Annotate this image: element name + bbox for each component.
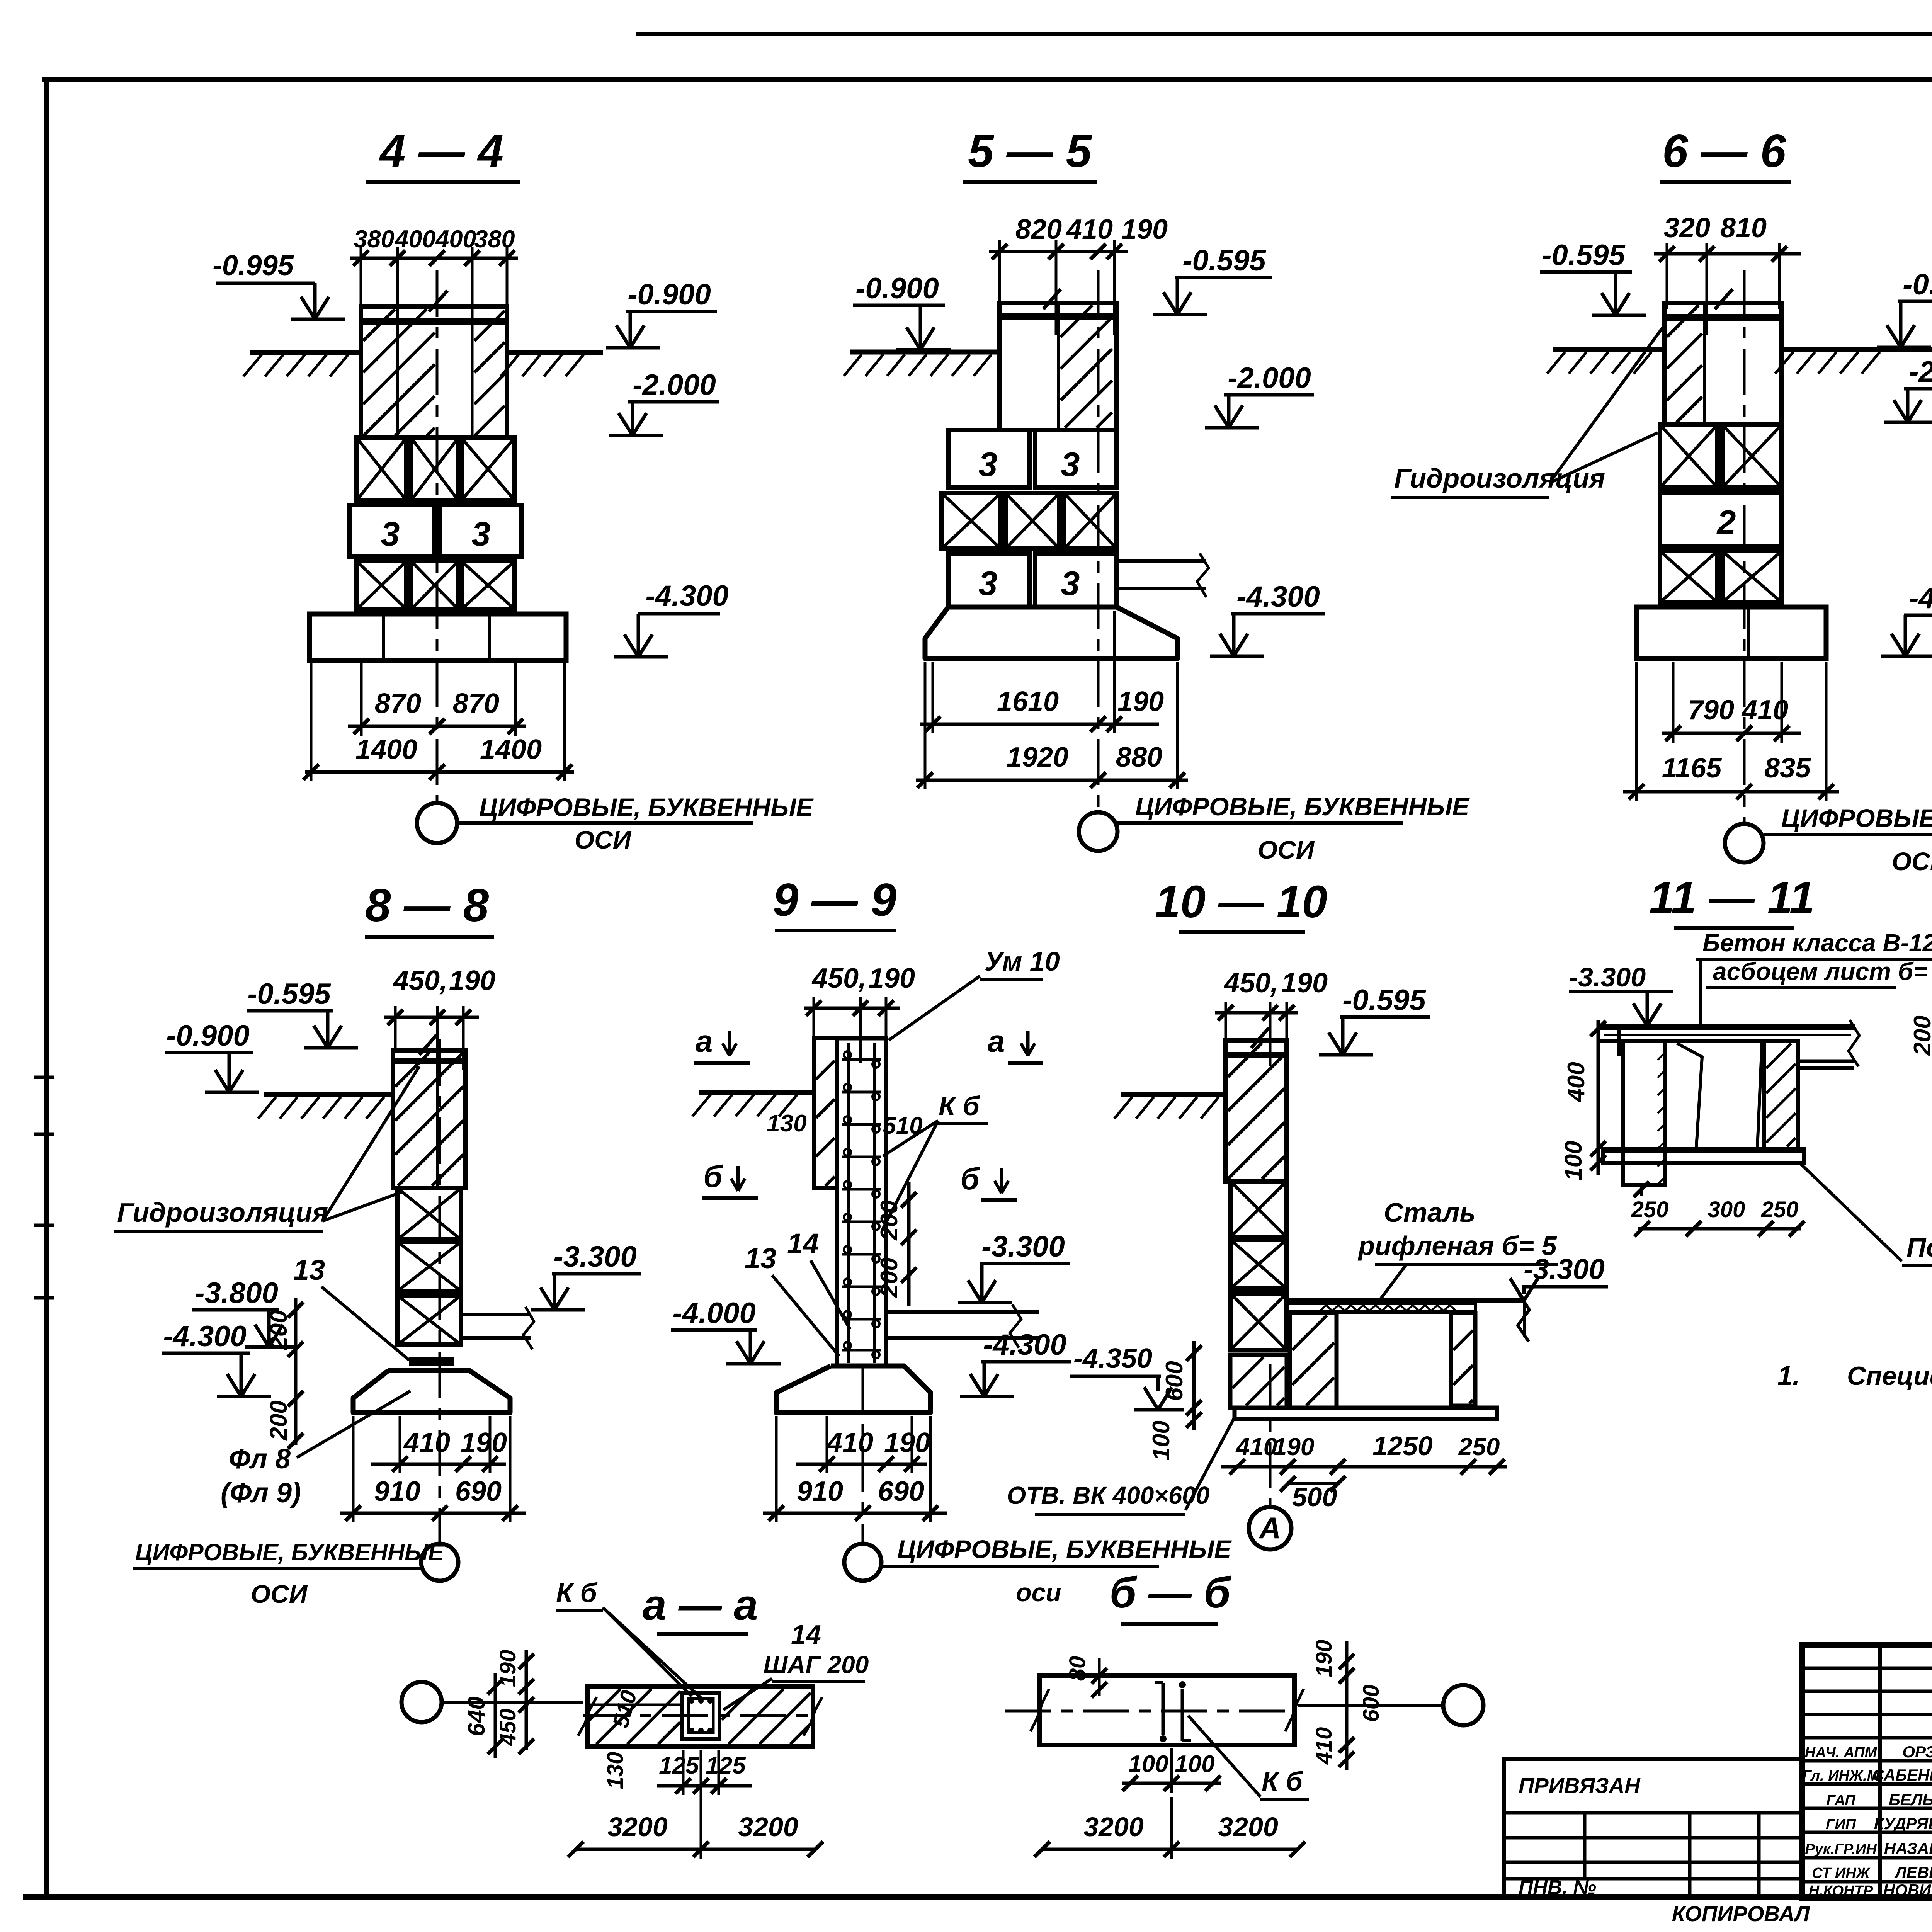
title block frame bbox=[1802, 1645, 1932, 1898]
svg-text:ОСИ-: ОСИ- bbox=[1892, 847, 1932, 876]
svg-text:ОСИ: ОСИ bbox=[1258, 835, 1315, 864]
dim 250 300 250 (11-11) bbox=[1638, 1227, 1801, 1231]
svg-text:410: 410 bbox=[1311, 1727, 1337, 1765]
svg-text:ЦИФРОВЫЕ, БУКВЕННЫЕ: ЦИФРОВЫЕ, БУКВЕННЫЕ bbox=[1781, 804, 1932, 832]
ground line left 5-5 bbox=[850, 350, 1000, 355]
svg-text:835: 835 bbox=[1764, 753, 1811, 784]
axis center line 9-9 bbox=[862, 1368, 864, 1544]
duct pipe right (8-8) bbox=[461, 1313, 531, 1316]
axis circle 8-8 bbox=[421, 1544, 458, 1581]
block row X upper bbox=[357, 438, 406, 500]
svg-text:13: 13 bbox=[293, 1254, 325, 1286]
svg-text:А: А bbox=[1259, 1511, 1281, 1545]
svg-text:3200: 3200 bbox=[738, 1812, 798, 1842]
svg-text:3: 3 bbox=[979, 445, 998, 483]
floor slab (10-10) bbox=[1287, 1298, 1524, 1303]
svg-text:КОПИРОВАЛ: КОПИРОВАЛ bbox=[1672, 1901, 1810, 1926]
svg-text:НАЧ. АПМ: НАЧ. АПМ bbox=[1805, 1745, 1878, 1761]
block row 3-3 lower (5-5) bbox=[948, 553, 1030, 607]
svg-text:2: 2 bbox=[1716, 503, 1736, 541]
svg-text:190: 190 bbox=[1311, 1640, 1337, 1677]
svg-text:190: 190 bbox=[1273, 1433, 1315, 1461]
svg-text:200: 200 bbox=[265, 1310, 292, 1350]
rebar cage (a-a) bbox=[682, 1693, 719, 1739]
wall section 4-4 bbox=[361, 307, 507, 438]
svg-text:ЦИФРОВЫЕ, БУКВЕННЫЕ: ЦИФРОВЫЕ, БУКВЕННЫЕ bbox=[897, 1535, 1232, 1563]
wall band (a-a) bbox=[587, 1687, 813, 1747]
svg-text:400: 400 bbox=[394, 226, 435, 253]
title block left annex privyazan bbox=[1504, 1759, 1802, 1898]
svg-text:130: 130 bbox=[603, 1752, 628, 1789]
svg-text:690: 690 bbox=[455, 1476, 502, 1507]
svg-text:б: б bbox=[960, 1162, 980, 1196]
svg-text:1400: 1400 bbox=[355, 734, 417, 765]
svg-text:-0.900: -0.900 bbox=[628, 278, 711, 311]
ground line left 10-10 bbox=[1121, 1092, 1226, 1097]
svg-text:600: 600 bbox=[1161, 1361, 1188, 1401]
bottom plate (10-10) bbox=[1235, 1408, 1497, 1419]
checkered plate hatch bbox=[1320, 1305, 1456, 1311]
svg-text:11 — 11: 11 — 11 bbox=[1649, 872, 1815, 923]
wall band (b-b) bbox=[1040, 1676, 1294, 1745]
svg-text:К б: К б bbox=[939, 1091, 980, 1121]
registration ticks left margin bbox=[34, 1076, 54, 1079]
svg-text:-4.300: -4.300 bbox=[1909, 582, 1932, 615]
svg-text:ЦИФРОВЫЕ, БУКВЕННЫЕ: ЦИФРОВЫЕ, БУКВЕННЫЕ bbox=[479, 793, 814, 821]
block row X upper (6-6) bbox=[1660, 425, 1718, 488]
axis center line (a-a) bbox=[442, 1701, 583, 1704]
block column X (8-8) bbox=[398, 1188, 461, 1240]
svg-text:14: 14 bbox=[787, 1228, 819, 1260]
svg-text:-0.900: -0.900 bbox=[1903, 268, 1932, 301]
ground line left 8-8 bbox=[264, 1092, 393, 1097]
wall section 6-6 bbox=[1665, 303, 1782, 425]
svg-text:14: 14 bbox=[791, 1619, 821, 1650]
svg-text:125: 125 bbox=[706, 1752, 746, 1779]
svg-text:190: 190 bbox=[869, 963, 915, 994]
section a-a end ticks bbox=[568, 1842, 583, 1857]
svg-text:САБЕННИКОВ: САБЕННИКОВ bbox=[1872, 1766, 1932, 1784]
svg-text:-3.300: -3.300 bbox=[981, 1230, 1065, 1263]
break slash 8-8 bbox=[419, 1035, 437, 1055]
break slash 10-10 bbox=[1251, 1028, 1269, 1048]
svg-text:-4.300: -4.300 bbox=[163, 1320, 247, 1353]
svg-text:3: 3 bbox=[381, 515, 400, 553]
bottom plate podbetonka (11-11) bbox=[1603, 1149, 1804, 1163]
svg-text:910: 910 bbox=[374, 1476, 420, 1507]
svg-text:-0.595: -0.595 bbox=[1342, 984, 1426, 1017]
svg-text:450,: 450, bbox=[1223, 968, 1278, 998]
basement wall right (10-10) bbox=[1451, 1313, 1475, 1406]
svg-text:880: 880 bbox=[1116, 742, 1162, 773]
svg-text:3: 3 bbox=[472, 515, 491, 553]
svg-text:600: 600 bbox=[1359, 1685, 1384, 1722]
svg-text:оси: оси bbox=[1016, 1578, 1061, 1607]
svg-text:410: 410 bbox=[403, 1427, 450, 1458]
svg-text:410: 410 bbox=[1066, 214, 1113, 245]
svg-text:-2.000: -2.000 bbox=[1228, 362, 1311, 395]
svg-text:13: 13 bbox=[745, 1242, 776, 1274]
svg-text:К б: К б bbox=[556, 1578, 597, 1608]
svg-text:9 — 9: 9 — 9 bbox=[773, 874, 896, 926]
svg-text:ШАГ 200: ШАГ 200 bbox=[764, 1651, 869, 1679]
slab break right (11-11) bbox=[1796, 1060, 1854, 1063]
rebar anchors (b-b) bbox=[1162, 1683, 1165, 1735]
block row 3-3 upper (5-5) bbox=[948, 430, 1030, 488]
svg-text:а — а: а — а bbox=[643, 1581, 758, 1629]
svg-text:ПРИВЯЗАН: ПРИВЯЗАН bbox=[1519, 1773, 1641, 1798]
svg-text:3: 3 bbox=[1061, 445, 1080, 483]
svg-text:125: 125 bbox=[659, 1752, 699, 1779]
svg-text:450: 450 bbox=[495, 1709, 520, 1747]
svg-text:ЛЕВИНА: ЛЕВИНА bbox=[1894, 1863, 1932, 1881]
basement wall left (10-10) bbox=[1290, 1313, 1337, 1408]
footing trapezoid 9-9 bbox=[776, 1366, 930, 1413]
svg-text:а: а bbox=[988, 1024, 1005, 1058]
svg-text:-3.800: -3.800 bbox=[195, 1277, 278, 1310]
svg-text:НАЗАРОВА: НАЗАРОВА bbox=[1884, 1839, 1932, 1857]
axis center line 10-10 bbox=[1269, 1364, 1272, 1507]
axis circle 9-9 bbox=[844, 1544, 881, 1581]
svg-text:190: 190 bbox=[495, 1650, 520, 1687]
wall base block (10-10) bbox=[1230, 1355, 1287, 1408]
svg-text:К б: К б bbox=[1262, 1766, 1303, 1796]
svg-text:1400: 1400 bbox=[480, 734, 542, 765]
svg-text:БЕЛЬМАН: БЕЛЬМАН bbox=[1889, 1791, 1932, 1809]
svg-text:190: 190 bbox=[1121, 214, 1168, 245]
svg-text:-0.900: -0.900 bbox=[855, 272, 939, 305]
svg-text:410: 410 bbox=[826, 1427, 873, 1458]
svg-text:910: 910 bbox=[797, 1476, 843, 1507]
waterproofing layer 10-10 bbox=[1226, 1052, 1287, 1058]
svg-text:ЦИФРОВЫЕ, БУКВЕННЫЕ: ЦИФРОВЫЕ, БУКВЕННЫЕ bbox=[135, 1539, 445, 1565]
svg-text:-2.000: -2.000 bbox=[1909, 355, 1932, 388]
svg-text:200: 200 bbox=[876, 1200, 903, 1240]
wall section 10-10 bbox=[1226, 1041, 1287, 1181]
break slash 5-5 bbox=[1043, 289, 1061, 309]
svg-text:190: 190 bbox=[449, 965, 495, 996]
footing slab 6-6 bbox=[1636, 607, 1826, 658]
svg-text:640: 640 bbox=[463, 1696, 490, 1736]
svg-text:130: 130 bbox=[767, 1110, 806, 1137]
svg-text:190: 190 bbox=[884, 1427, 930, 1458]
axis circle 4-4 bbox=[417, 803, 457, 843]
svg-text:80: 80 bbox=[1065, 1656, 1090, 1681]
svg-text:ГИП: ГИП bbox=[1826, 1816, 1856, 1833]
wall outer leaf (9-9) bbox=[814, 1038, 837, 1188]
axis center line 5-5 bbox=[1097, 270, 1100, 811]
svg-text:Гл. ИНЖ.М: Гл. ИНЖ.М bbox=[1803, 1768, 1880, 1784]
svg-text:Гидроизоляция: Гидроизоляция bbox=[1394, 463, 1605, 493]
svg-text:250: 250 bbox=[1458, 1433, 1500, 1461]
svg-text:(Фл 9): (Фл 9) bbox=[221, 1478, 301, 1509]
ground line left 6-6 bbox=[1553, 347, 1665, 352]
svg-text:Подбетонка: Подбетонка bbox=[1906, 1232, 1932, 1262]
svg-text:1165: 1165 bbox=[1662, 753, 1722, 784]
wall section 8-8 bbox=[393, 1050, 466, 1188]
svg-text:200: 200 bbox=[265, 1400, 292, 1440]
block row X lower (6-6) bbox=[1660, 551, 1718, 602]
wall column (9-9) bbox=[837, 1038, 886, 1366]
ground line left bbox=[250, 350, 361, 355]
duct pipe right (5-5) bbox=[1117, 559, 1206, 563]
svg-text:ОТВ. ВК 400×600: ОТВ. ВК 400×600 bbox=[1007, 1481, 1210, 1509]
waterproofing layer 5-5 bbox=[1000, 313, 1117, 320]
svg-text:190: 190 bbox=[1281, 968, 1328, 998]
svg-text:-4.300: -4.300 bbox=[1236, 580, 1320, 613]
svg-text:500: 500 bbox=[1292, 1482, 1337, 1512]
block column X (10-10) bbox=[1230, 1181, 1287, 1237]
break slash wall top bbox=[429, 291, 447, 311]
svg-text:б: б bbox=[703, 1159, 723, 1194]
svg-text:-4.300: -4.300 bbox=[983, 1328, 1066, 1361]
ground line right bbox=[507, 350, 603, 355]
svg-text:-3.300: -3.300 bbox=[553, 1240, 637, 1273]
svg-text:Гидроизоляция: Гидроизоляция bbox=[117, 1197, 328, 1228]
svg-text:-4.000: -4.000 bbox=[672, 1297, 756, 1330]
svg-text:810: 810 bbox=[1720, 213, 1767, 243]
axis circle A (10-10) bbox=[1249, 1507, 1291, 1549]
svg-text:3200: 3200 bbox=[1083, 1812, 1144, 1842]
svg-text:КУДРЯВЦЕВА: КУДРЯВЦЕВА bbox=[1874, 1815, 1932, 1833]
waterproofing layer bbox=[361, 318, 507, 325]
axis circle 5-5 bbox=[1079, 812, 1117, 851]
svg-text:ОСИ: ОСИ bbox=[251, 1580, 308, 1608]
vertical dim 400 100 (11-11) bbox=[1597, 1020, 1600, 1175]
reinforcement ladder (9-9) bbox=[847, 1043, 850, 1363]
svg-text:1610: 1610 bbox=[997, 686, 1059, 717]
svg-text:870: 870 bbox=[453, 688, 499, 719]
title block signature table bbox=[1802, 1667, 1932, 1670]
svg-text:НОВИКОВА: НОВИКОВА bbox=[1883, 1881, 1932, 1899]
ground line left 9-9 bbox=[699, 1090, 814, 1095]
axis circle 6-6 bbox=[1725, 824, 1764, 862]
svg-text:3: 3 bbox=[1061, 564, 1080, 602]
svg-text:3200: 3200 bbox=[607, 1812, 668, 1842]
svg-text:190: 190 bbox=[1117, 686, 1164, 717]
svg-text:-0.595: -0.595 bbox=[1182, 244, 1266, 277]
svg-text:Н.КОНТР: Н.КОНТР bbox=[1809, 1883, 1873, 1899]
svg-text:Фл 8: Фл 8 bbox=[229, 1444, 291, 1475]
svg-text:200: 200 bbox=[1909, 1015, 1932, 1056]
svg-text:Рук.ГР.ИН: Рук.ГР.ИН bbox=[1805, 1841, 1877, 1857]
block row 3-3 bbox=[350, 505, 434, 556]
svg-text:100: 100 bbox=[1175, 1751, 1214, 1777]
svg-text:а: а bbox=[696, 1024, 713, 1058]
page frame border bbox=[636, 32, 1932, 36]
channel left wall (11-11) bbox=[1623, 1041, 1665, 1185]
axis center line (b-b) bbox=[1298, 1704, 1443, 1707]
floor slab (11-11) bbox=[1600, 1024, 1855, 1030]
svg-text:100: 100 bbox=[1128, 1751, 1168, 1777]
svg-text:-3.300: -3.300 bbox=[1569, 962, 1646, 992]
axis center line 6-6 bbox=[1743, 270, 1746, 823]
axis center line 4-4 bbox=[436, 270, 439, 803]
svg-text:б — б: б — б bbox=[1110, 1568, 1232, 1617]
svg-text:450,: 450, bbox=[393, 965, 447, 996]
duct pipe right (9-9) bbox=[886, 1310, 1039, 1314]
break slash 6-6 bbox=[1715, 289, 1733, 309]
svg-text:ОСИ: ОСИ bbox=[575, 825, 632, 854]
svg-text:870: 870 bbox=[375, 688, 421, 719]
svg-text:-0.595: -0.595 bbox=[1542, 239, 1626, 272]
svg-text:300: 300 bbox=[1708, 1197, 1745, 1222]
svg-text:690: 690 bbox=[878, 1476, 924, 1507]
svg-text:100: 100 bbox=[1560, 1141, 1587, 1180]
vertical dim 200 200 (8-8) bbox=[294, 1298, 298, 1445]
waterproofing layer 8-8 bbox=[393, 1058, 466, 1064]
axis circle (b-b) bbox=[1443, 1685, 1483, 1725]
footing trapezoid 5-5 bbox=[925, 607, 1177, 658]
svg-text:100: 100 bbox=[1148, 1420, 1175, 1460]
svg-text:-0.595: -0.595 bbox=[247, 978, 331, 1010]
svg-text:-4.300: -4.300 bbox=[645, 580, 729, 612]
vertical dims 640 450 190 (a-a) bbox=[494, 1673, 497, 1758]
svg-text:5 — 5: 5 — 5 bbox=[968, 125, 1092, 177]
block row 2 (6-6) bbox=[1660, 492, 1782, 546]
bearing plate Fl (8-8) bbox=[409, 1357, 454, 1366]
svg-text:Бетон класса В-12,5-50мм: Бетон класса В-12,5-50мм bbox=[1702, 929, 1932, 957]
svg-text:400: 400 bbox=[1563, 1062, 1590, 1102]
svg-text:Ум 10: Ум 10 bbox=[985, 946, 1060, 976]
svg-text:ГАП: ГАП bbox=[1826, 1793, 1855, 1809]
svg-text:790: 790 bbox=[1688, 695, 1734, 726]
footing trapezoid 8-8 bbox=[353, 1371, 510, 1413]
svg-text:-2.000: -2.000 bbox=[633, 369, 716, 401]
vertical dims 190 600 410 (b-b) bbox=[1345, 1641, 1349, 1770]
slab left end step bbox=[1617, 1027, 1621, 1056]
block row X lower bbox=[357, 561, 406, 609]
waterproofing layer 6-6 bbox=[1665, 314, 1782, 321]
svg-text:400: 400 bbox=[435, 226, 476, 253]
svg-text:3: 3 bbox=[979, 564, 998, 602]
svg-text:8 — 8: 8 — 8 bbox=[365, 879, 489, 931]
svg-text:200: 200 bbox=[876, 1257, 903, 1298]
axis circle (a-a) bbox=[401, 1682, 442, 1722]
svg-text:190: 190 bbox=[461, 1427, 507, 1458]
svg-text:ОРЗУЛ: ОРЗУЛ bbox=[1902, 1743, 1932, 1761]
svg-text:СТ ИНЖ: СТ ИНЖ bbox=[1812, 1865, 1871, 1881]
channel right wall (11-11) bbox=[1764, 1041, 1798, 1149]
svg-text:4 — 4: 4 — 4 bbox=[379, 125, 503, 177]
svg-text:1.: 1. bbox=[1777, 1361, 1800, 1391]
svg-text:1250: 1250 bbox=[1372, 1431, 1433, 1461]
svg-text:250: 250 bbox=[1631, 1197, 1669, 1222]
svg-text:-4.350: -4.350 bbox=[1073, 1343, 1152, 1374]
svg-text:250: 250 bbox=[1761, 1197, 1799, 1222]
vertical dim 600 100 (10-10) bbox=[1192, 1341, 1196, 1430]
svg-text:-0.900: -0.900 bbox=[166, 1019, 250, 1052]
block row X (5-5) bbox=[942, 493, 1001, 549]
leader from labels to slab bbox=[1699, 960, 1702, 1024]
svg-text:380: 380 bbox=[474, 226, 515, 253]
axis center line 8-8 bbox=[439, 1039, 441, 1544]
svg-text:ПНВ. №: ПНВ. № bbox=[1519, 1876, 1596, 1899]
svg-text:ЦИФРОВЫЕ, БУКВЕННЫЕ: ЦИФРОВЫЕ, БУКВЕННЫЕ bbox=[1135, 792, 1470, 821]
svg-text:Спецификацию элементов фундаме: Спецификацию элементов фундаментов см. л… bbox=[1847, 1361, 1932, 1391]
wall section 5-5 bbox=[1000, 303, 1117, 430]
ground line right 6-6 bbox=[1782, 347, 1932, 352]
floor break right (10-10) bbox=[1518, 1293, 1529, 1342]
duct funnel (11-11) bbox=[1677, 1043, 1702, 1148]
svg-text:3200: 3200 bbox=[1218, 1812, 1278, 1842]
svg-text:6 — 6: 6 — 6 bbox=[1662, 125, 1786, 177]
svg-text:Сталь: Сталь bbox=[1384, 1197, 1476, 1228]
vertical dim 200 200 (9-9) bbox=[907, 1182, 911, 1306]
svg-text:10 — 10: 10 — 10 bbox=[1155, 876, 1327, 927]
svg-text:1920: 1920 bbox=[1007, 742, 1068, 773]
svg-text:320: 320 bbox=[1664, 213, 1710, 243]
svg-text:асбоцем лист б= 8мм: асбоцем лист б= 8мм bbox=[1713, 957, 1932, 985]
footing slab 4-4 bbox=[310, 614, 566, 661]
svg-text:450,: 450, bbox=[811, 963, 866, 994]
svg-text:-0.995: -0.995 bbox=[213, 249, 294, 281]
